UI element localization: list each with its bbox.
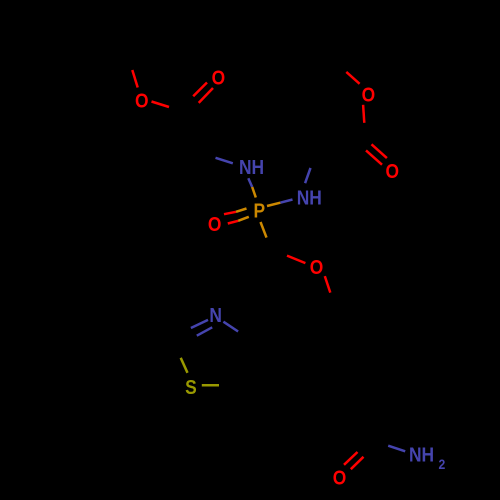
- wire: bond O1-C1 ester, O half: [152, 102, 170, 108]
- svg-text:O: O: [333, 466, 347, 488]
- wire: double bond Camide=O7 upper line, O half: [344, 452, 358, 465]
- wire: bond CH3-O4 ester, O half: [346, 72, 359, 84]
- wire: bond N1-P, P half: [252, 187, 256, 198]
- wire: thiazole bond S1-C5, S half: [202, 384, 219, 387]
- wire: bond Calpha-N1, N half: [216, 158, 233, 164]
- wire: bond O6-Cring ether, O half: [325, 276, 331, 293]
- wire: double bond P=O3 upper line, O half: [224, 212, 236, 214]
- svg-text:O: O: [212, 66, 226, 88]
- wire: bond P-N2, P half: [267, 203, 280, 206]
- wire: thiazole double bond N3=C2t outer line, N half: [191, 320, 208, 328]
- wire: double bond C1=O2 outer line, O half: [193, 83, 207, 97]
- wire: double bond P=O3 lower line, P half: [238, 217, 249, 221]
- wire: bond O4-C2 ester, O half: [363, 105, 364, 123]
- svg-text:O: O: [386, 160, 400, 182]
- wire: bond CH3-O1 ester, O half: [132, 70, 137, 88]
- svg-text:2: 2: [438, 456, 445, 472]
- wire: bond P-N2, N half: [280, 200, 292, 203]
- wire: thiazole double bond N3=C2t inner line, N half: [197, 327, 212, 335]
- wire: bond Camide-N amide, N half: [388, 446, 405, 452]
- svg-text:O: O: [362, 83, 376, 105]
- wire: bond N2-Calpha2, N half: [305, 168, 310, 183]
- wire: bond N1-P, N half: [248, 178, 252, 187]
- svg-text:P: P: [253, 200, 265, 222]
- svg-text:NH: NH: [239, 156, 264, 178]
- svg-text:NH: NH: [297, 186, 322, 208]
- wire: thiazole bond S1-C2t, S half: [181, 358, 188, 373]
- svg-text:O: O: [208, 213, 222, 235]
- wire: double bond P=O3 lower line, O half: [228, 221, 238, 224]
- wire: bond P-CH2, P half: [261, 222, 267, 238]
- wire: double bond P=O3 upper line, P half: [236, 209, 247, 212]
- wire: thiazole bond N3-C4, N half: [223, 322, 238, 332]
- wire: bond CH2-O6 ether, O half: [287, 256, 305, 264]
- svg-text:N: N: [209, 304, 222, 326]
- svg-text:NH: NH: [409, 443, 434, 465]
- wire: double bond C1=O2 inner line, O half: [199, 88, 213, 103]
- wire: double bond C2=O5 upper line, O half: [372, 144, 387, 158]
- svg-text:O: O: [310, 256, 324, 278]
- svg-text:S: S: [185, 376, 197, 398]
- svg-text:O: O: [135, 89, 149, 111]
- wire: double bond Camide=O7 lower line, O half: [351, 457, 364, 469]
- wire: double bond C2=O5 lower line, O half: [366, 150, 382, 164]
